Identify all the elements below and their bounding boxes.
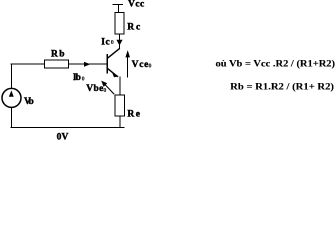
svg-text:Re: Re bbox=[127, 109, 140, 119]
svg-text:0: 0 bbox=[103, 88, 106, 94]
svg-text:Rc: Rc bbox=[127, 23, 140, 33]
svg-text:0: 0 bbox=[82, 76, 85, 82]
svg-text:Vb: Vb bbox=[24, 97, 34, 107]
svg-text:Ib: Ib bbox=[73, 73, 81, 83]
svg-text:où Vb = Vcc .R2 / (R1+R2): où Vb = Vcc .R2 / (R1+R2) bbox=[216, 59, 336, 70]
svg-text:Rb = R1.R2 / (R1+ R2): Rb = R1.R2 / (R1+ R2) bbox=[230, 82, 334, 93]
svg-text:Vce: Vce bbox=[132, 60, 149, 70]
svg-text:Vbe: Vbe bbox=[86, 84, 103, 94]
svg-text:0V: 0V bbox=[57, 132, 69, 142]
svg-text:0: 0 bbox=[111, 40, 114, 46]
svg-text:0: 0 bbox=[149, 63, 152, 69]
svg-text:Rb: Rb bbox=[51, 50, 65, 60]
svg-text:Vcc: Vcc bbox=[128, 0, 144, 10]
svg-text:Ic: Ic bbox=[101, 37, 109, 47]
